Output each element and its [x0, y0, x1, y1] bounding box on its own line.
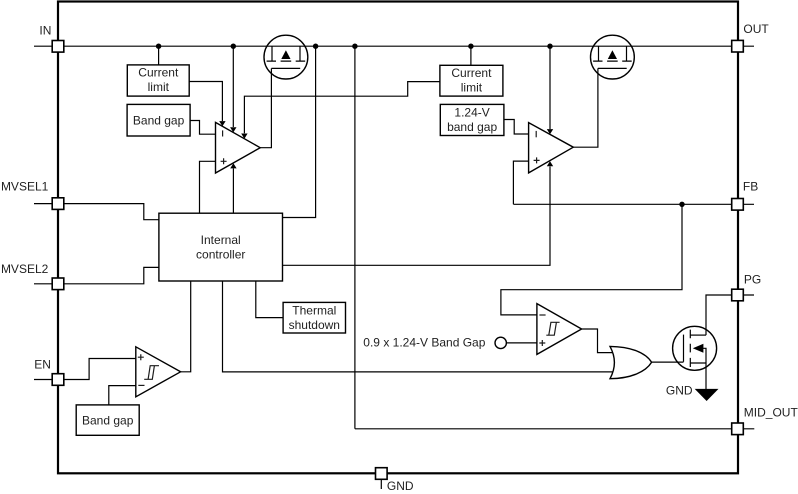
- svg-text:EN: EN: [34, 357, 51, 371]
- svg-text:Thermal: Thermal: [292, 303, 336, 317]
- svg-text:Internal: Internal: [201, 233, 241, 247]
- svg-text:0.9 x 1.24-V Band Gap: 0.9 x 1.24-V Band Gap: [363, 335, 485, 349]
- svg-text:controller: controller: [196, 248, 245, 262]
- svg-text:MVSEL1: MVSEL1: [1, 180, 49, 194]
- svg-text:limit: limit: [461, 81, 483, 95]
- svg-text:band gap: band gap: [447, 120, 497, 134]
- svg-text:Current: Current: [451, 66, 492, 80]
- svg-text:shutdown: shutdown: [289, 318, 340, 332]
- svg-text:MVSEL2: MVSEL2: [1, 262, 49, 276]
- svg-text:GND: GND: [387, 479, 414, 493]
- svg-text:FB: FB: [743, 180, 758, 194]
- svg-text:OUT: OUT: [743, 22, 769, 36]
- svg-text:limit: limit: [148, 80, 170, 94]
- svg-text:PG: PG: [744, 272, 761, 286]
- svg-text:GND: GND: [666, 384, 693, 398]
- svg-text:1.24-V: 1.24-V: [454, 106, 489, 120]
- svg-text:Current: Current: [138, 66, 179, 80]
- svg-text:MID_OUT: MID_OUT: [744, 405, 798, 419]
- svg-text:IN: IN: [39, 23, 51, 37]
- svg-text:Band gap: Band gap: [133, 114, 185, 128]
- svg-text:Band gap: Band gap: [82, 414, 134, 428]
